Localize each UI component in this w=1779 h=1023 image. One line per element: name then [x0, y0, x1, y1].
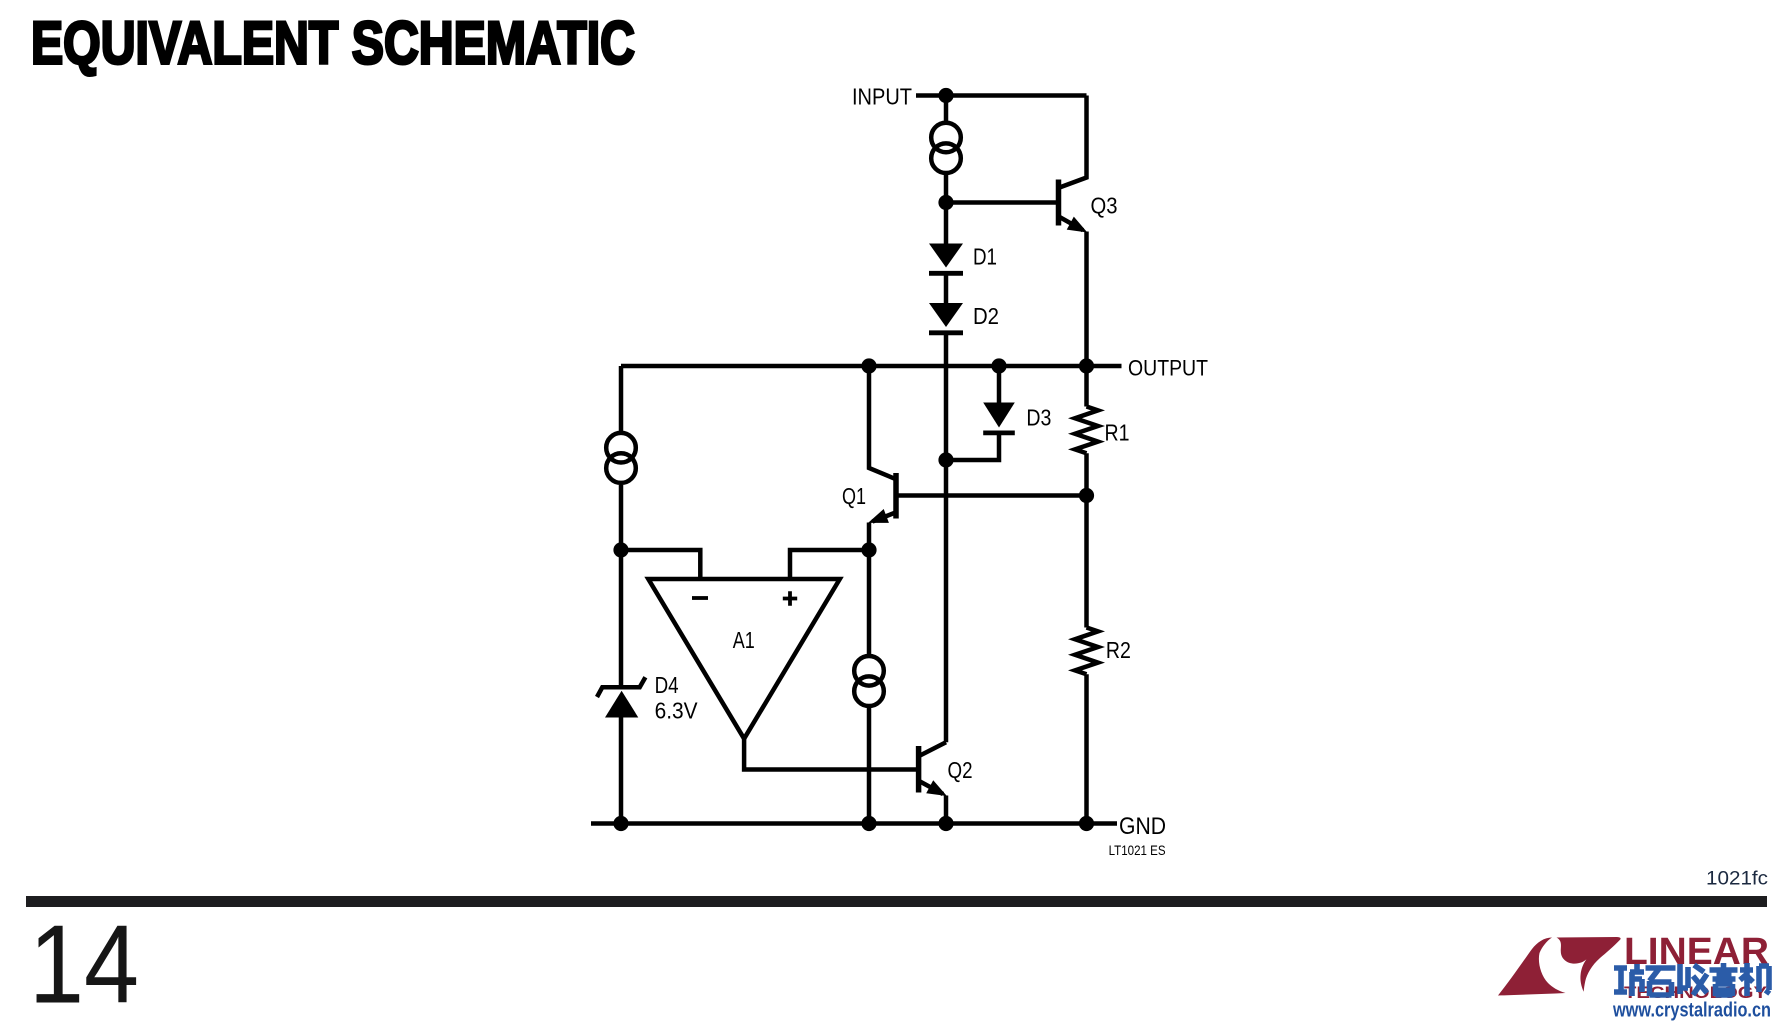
current source I3: [854, 656, 884, 706]
wire input node down to current source I1: [944, 96, 949, 122]
diode D3: [946, 366, 1015, 460]
node output right rail: [1079, 358, 1094, 373]
char shi: [1646, 968, 1676, 996]
node gnd left rail: [613, 816, 628, 831]
wire D1 to D2: [944, 276, 949, 304]
svg-text:6.3V: 6.3V: [655, 698, 699, 724]
op-amp plus sign: [783, 591, 797, 605]
wire mid rail emitter to I3: [867, 550, 872, 654]
wire minus input: [621, 550, 700, 577]
wire INPUT top rail: [916, 93, 1087, 98]
svg-text:1021fc: 1021fc: [1706, 869, 1768, 890]
wire OUTPUT line: [621, 364, 1122, 369]
node output D3: [991, 358, 1006, 373]
svg-text:OUTPUT: OUTPUT: [1128, 356, 1208, 381]
svg-text:D1: D1: [973, 243, 997, 269]
transistor Q2: [919, 742, 951, 823]
wire mid rail I3 to GND: [867, 708, 872, 824]
logo LT glyph: [1498, 937, 1621, 996]
svg-text:D4: D4: [655, 672, 679, 698]
char ji: [1740, 963, 1769, 996]
char shou: [1680, 964, 1707, 995]
current source I2: [606, 433, 636, 483]
svg-text:R1: R1: [1105, 420, 1130, 446]
node gnd Q2 emitter: [938, 816, 953, 831]
wire center rail D2 to Q2 collector: [944, 335, 949, 742]
node Q3 base junction: [938, 195, 953, 210]
svg-text:14: 14: [29, 903, 139, 1023]
node D3 center rail junction: [938, 452, 953, 467]
wire Q3 base: [946, 200, 1059, 205]
svg-text:D2: D2: [973, 303, 999, 329]
wire left rail mid: [619, 485, 624, 686]
svg-text:Q2: Q2: [948, 757, 973, 783]
wire op-amp output to Q2 base: [744, 739, 919, 770]
transistor Q1: [865, 366, 896, 550]
diode D1: [929, 244, 963, 274]
wire right rail lower: [1084, 674, 1089, 823]
zener diode D4: [597, 677, 645, 717]
node output Q1 collector: [861, 358, 876, 373]
resistor R2: [1075, 628, 1098, 675]
svg-text:GND: GND: [1119, 813, 1166, 840]
footer rule: [26, 896, 1767, 907]
svg-text:www.crystalradio.cn: www.crystalradio.cn: [1612, 1000, 1771, 1022]
svg-text:Q1: Q1: [842, 483, 866, 509]
wire GND line: [591, 821, 1117, 826]
wire Q1 base: [896, 493, 1087, 498]
resistor R1: [1075, 407, 1098, 454]
svg-text:INPUT: INPUT: [852, 83, 912, 109]
transistor Q3: [1059, 96, 1091, 367]
op-amp minus sign: [692, 596, 708, 600]
wire plus input: [790, 550, 869, 577]
node Q1 base R1 R2 junction: [1079, 488, 1094, 503]
svg-text:Q3: Q3: [1091, 192, 1118, 218]
svg-text:EQUIVALENT SCHEMATIC: EQUIVALENT SCHEMATIC: [31, 10, 635, 77]
wire left rail lower: [619, 718, 624, 824]
wire right rail between R1 and R2: [1084, 453, 1089, 627]
node gnd mid rail: [861, 816, 876, 831]
wire I1 to D1: [944, 175, 949, 244]
svg-text:LT1021 ES: LT1021 ES: [1109, 842, 1166, 858]
op-amp A1: [648, 579, 840, 739]
char kuang: [1614, 964, 1644, 996]
current source I1: [931, 123, 961, 173]
node minus input junction: [613, 542, 628, 557]
wire left rail upper: [619, 366, 624, 431]
svg-text:R2: R2: [1106, 637, 1131, 663]
node gnd right rail: [1079, 816, 1094, 831]
node plus input emitter junction: [861, 542, 876, 557]
diode D2: [929, 303, 963, 333]
svg-text:D3: D3: [1026, 405, 1051, 431]
watermark chinese characters: [1614, 963, 1769, 996]
char yin: [1710, 963, 1738, 996]
wire right rail OUTPUT to R1: [1084, 366, 1089, 407]
svg-text:A1: A1: [733, 627, 755, 653]
node input junction: [938, 88, 953, 103]
